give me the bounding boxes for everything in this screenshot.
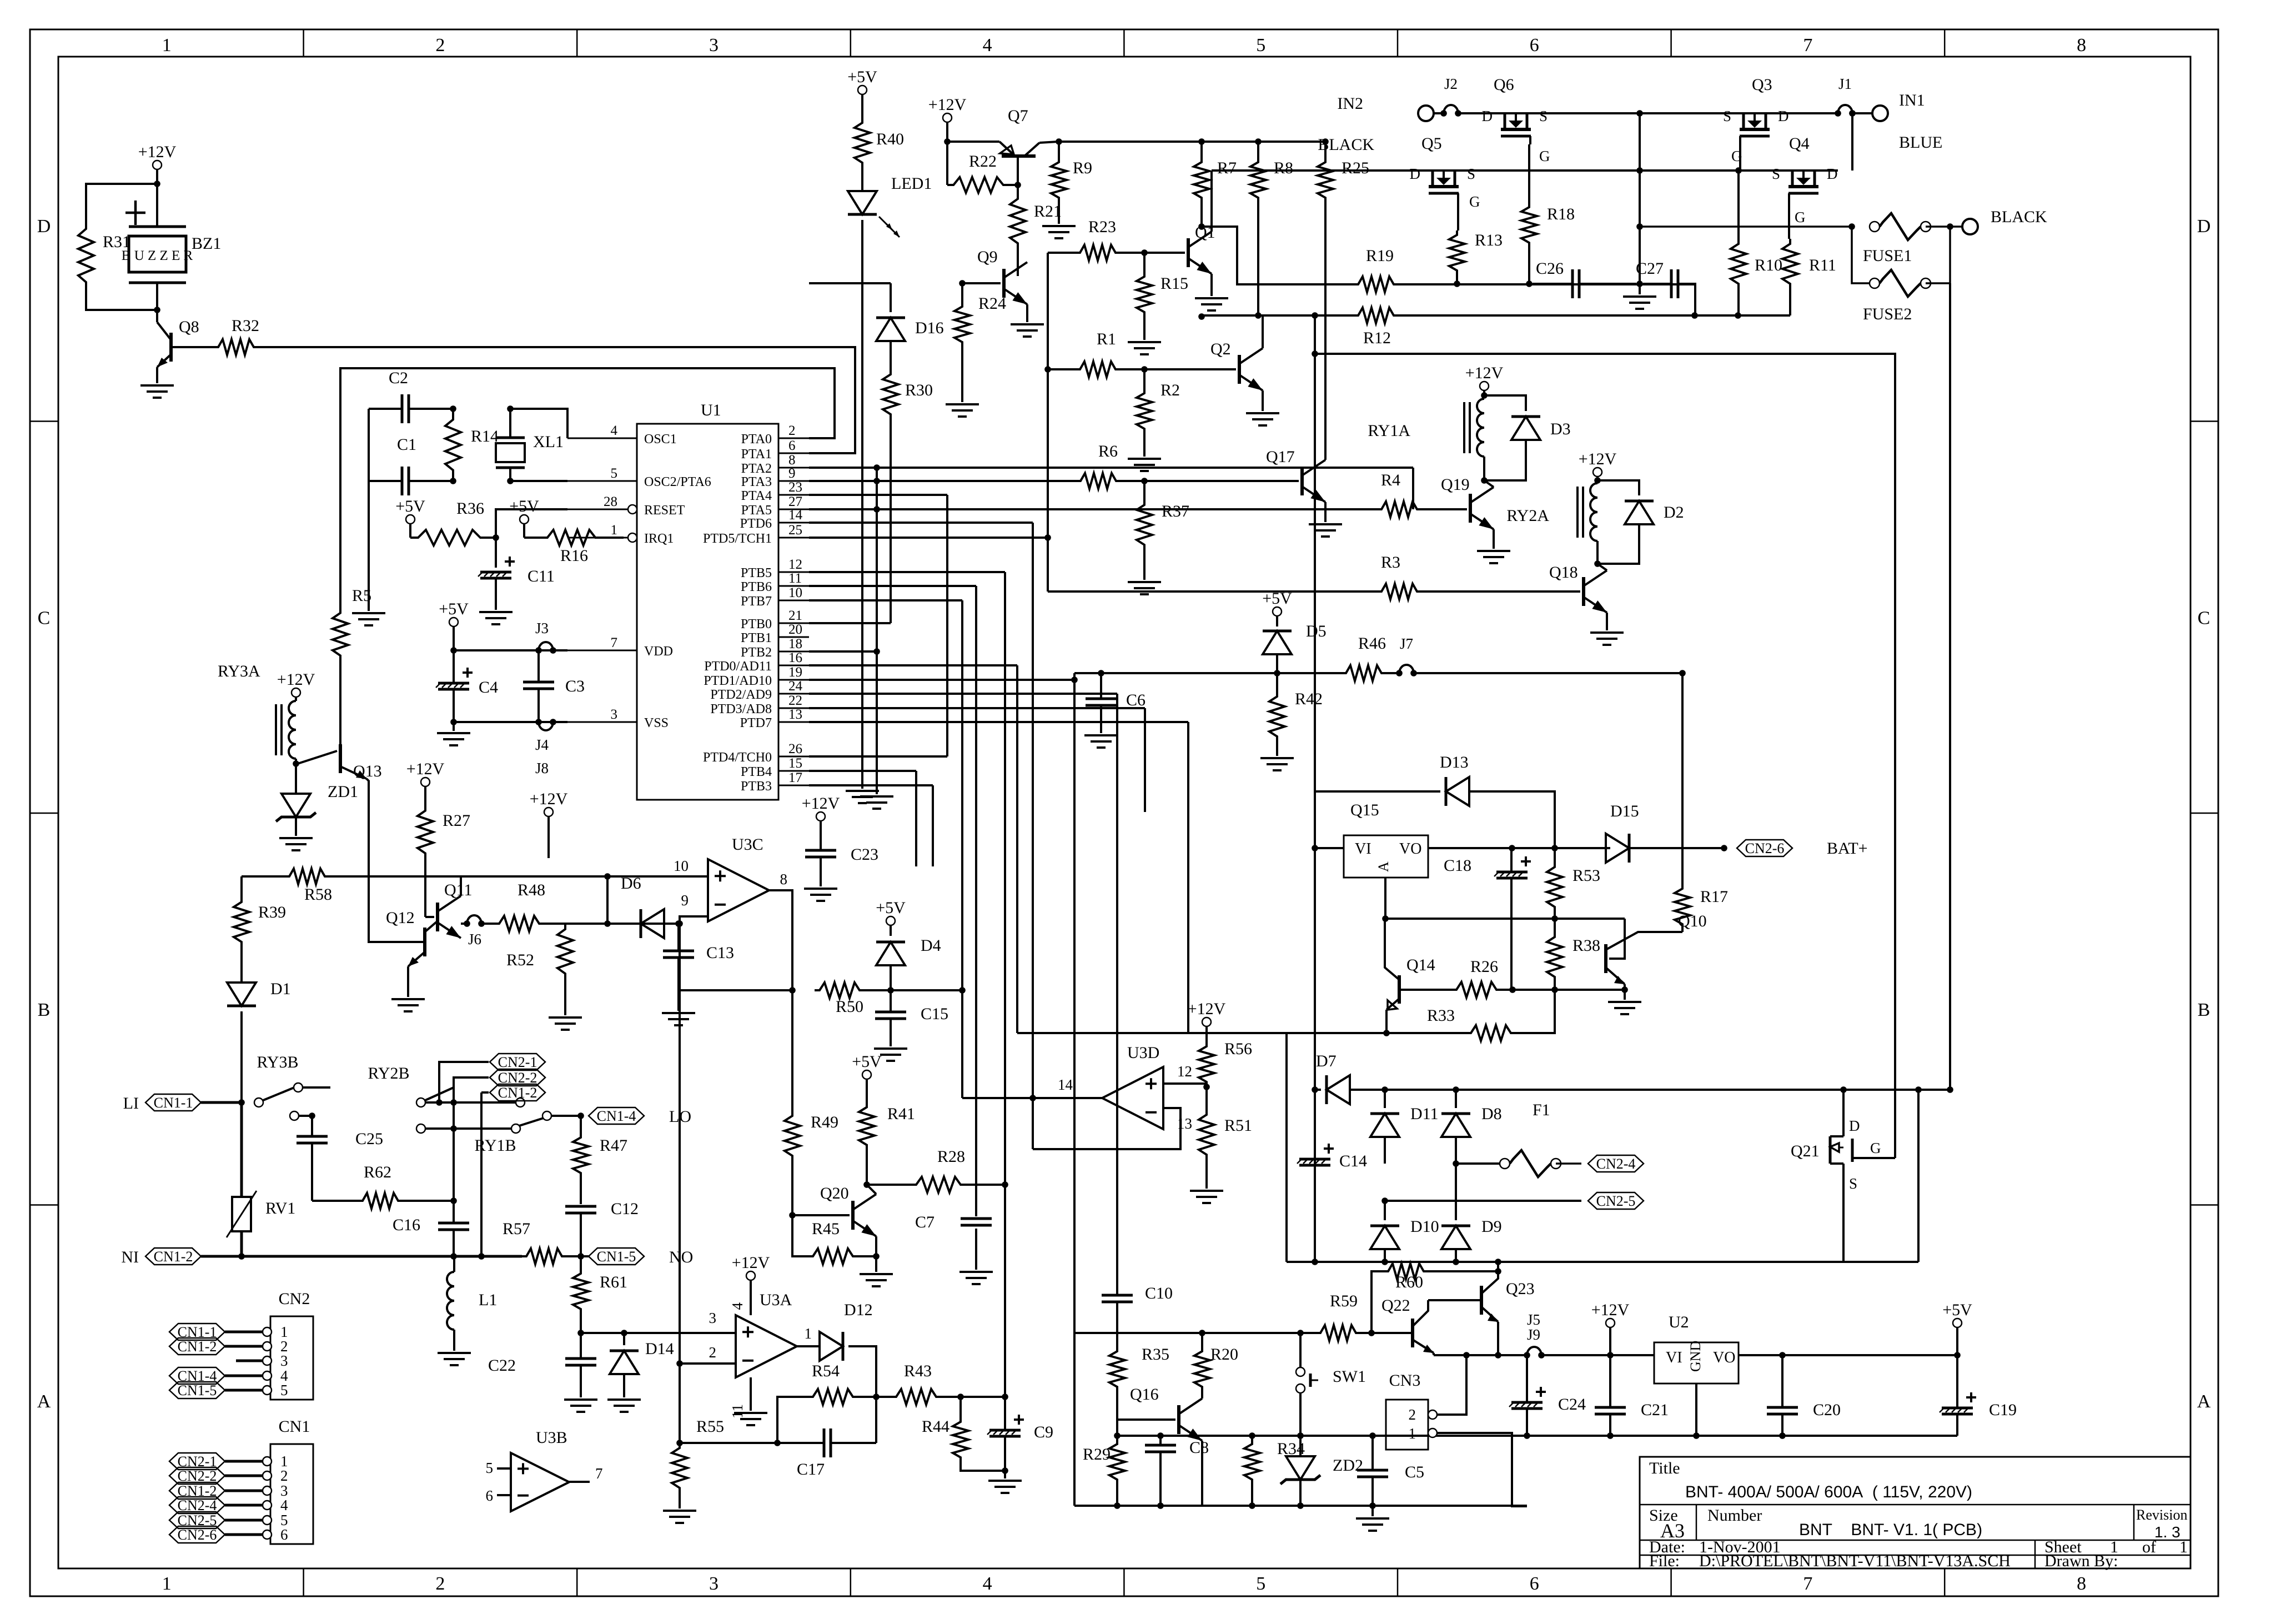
wire RESET [496, 509, 567, 538]
ground [1624, 990, 1626, 1000]
flag CN1-5 NO [589, 1248, 644, 1265]
svg-text:R56: R56 [1224, 1040, 1252, 1058]
svg-text:IN2: IN2 [1337, 94, 1363, 113]
resistor R56 [1199, 1042, 1214, 1086]
svg-text:U2: U2 [1669, 1313, 1689, 1331]
wire pin21 [809, 622, 891, 624]
svg-text:LI: LI [123, 1094, 139, 1112]
svg-text:Q10: Q10 [1678, 912, 1707, 930]
svg-text:PTB5: PTB5 [741, 566, 772, 580]
svg-text:U3A: U3A [760, 1291, 792, 1309]
ground [959, 1271, 993, 1273]
wire CN3 pin1 [1437, 1433, 1527, 1506]
svg-text:Q15: Q15 [1350, 801, 1379, 819]
wire U3C + line [329, 875, 708, 878]
jumper J2 [1434, 112, 1444, 114]
capacitor C12 [565, 1205, 596, 1208]
svg-text:C2: C2 [389, 369, 408, 387]
fuse FUSE1 [1870, 222, 1880, 232]
bus vertical pin10 PTB7 to U3D [809, 599, 962, 602]
wire pin15 [809, 770, 916, 772]
svg-text:R26: R26 [1470, 958, 1498, 976]
svg-text:11: 11 [729, 1404, 746, 1419]
svg-text:C27: C27 [1636, 259, 1664, 278]
svg-text:R1: R1 [1097, 330, 1116, 348]
svg-text:G: G [1469, 193, 1480, 210]
title block [1640, 1457, 2191, 1568]
varistor RV1 [240, 1102, 243, 1197]
wire CN3 pin2 [1437, 1355, 1466, 1415]
svg-text:C22: C22 [488, 1356, 516, 1375]
svg-text:D: D [1778, 108, 1789, 124]
svg-text:7: 7 [1803, 35, 1812, 56]
svg-text:G: G [1870, 1140, 1881, 1156]
svg-text:8: 8 [2077, 1573, 2086, 1594]
wire emitter [1201, 1441, 1203, 1506]
wire [86, 184, 157, 222]
fuse wire [1640, 225, 1852, 228]
wire output 8 [769, 890, 792, 990]
svg-text:R41: R41 [887, 1105, 915, 1123]
svg-text:B U Z Z E R: B U Z Z E R [122, 248, 193, 263]
svg-text:1. 3: 1. 3 [2154, 1523, 2181, 1541]
wire [86, 289, 157, 310]
svg-text:27: 27 [788, 494, 802, 509]
svg-text:C26: C26 [1536, 259, 1564, 278]
bus vertical pin22 [809, 707, 1145, 709]
wire RY2B down [453, 1102, 455, 1201]
svg-text:D9: D9 [1481, 1217, 1502, 1236]
svg-text:D12: D12 [844, 1301, 873, 1319]
svg-text:R52: R52 [506, 951, 534, 969]
resistor R41 [859, 1102, 875, 1150]
svg-text:OSC2/PTA6: OSC2/PTA6 [644, 475, 711, 489]
svg-text:C17: C17 [797, 1460, 825, 1478]
resistor R2 [1137, 389, 1152, 433]
svg-text:D3: D3 [1550, 420, 1571, 438]
svg-text:Q9: Q9 [977, 248, 998, 266]
svg-text:+5V: +5V [439, 600, 469, 618]
fuse FUSE2 [1852, 227, 1870, 283]
svg-text:R2: R2 [1160, 381, 1180, 399]
wire [368, 409, 370, 481]
ground [391, 998, 425, 1000]
flag CN2-2 [490, 1069, 545, 1086]
ground [1128, 341, 1161, 343]
svg-text:R49: R49 [811, 1113, 838, 1131]
resistor R38 [1547, 932, 1563, 982]
wire R12 row [1202, 314, 1354, 317]
jumper J7 [1396, 670, 1403, 676]
capacitor C8 [1145, 1444, 1176, 1447]
svg-text:PTA3: PTA3 [741, 475, 772, 489]
capacitor C15 [875, 1011, 906, 1014]
ground [140, 384, 174, 387]
svg-text:CN1: CN1 [279, 1417, 310, 1436]
right verticals [1917, 1090, 1920, 1262]
svg-text:S: S [1539, 108, 1548, 124]
resistor R35 [1109, 1347, 1125, 1391]
svg-text:+12V: +12V [1465, 364, 1504, 382]
wire collector [1201, 1391, 1203, 1399]
flag CN1-4 LO [589, 1107, 644, 1124]
wire [1926, 225, 1950, 228]
svg-text:LED1: LED1 [891, 174, 932, 193]
ground [1477, 550, 1510, 552]
resistor R13 [1449, 230, 1465, 275]
svg-text:File:: File: [1649, 1552, 1680, 1570]
diode D14 [581, 1332, 624, 1334]
svg-text:CN2-6: CN2-6 [1745, 840, 1785, 856]
svg-text:4: 4 [729, 1302, 746, 1310]
wire VI [1315, 847, 1344, 849]
svg-text:PTB3: PTB3 [741, 779, 772, 794]
svg-text:+12V: +12V [138, 143, 177, 161]
bottom rail left [1074, 1505, 1527, 1507]
svg-text:R28: R28 [937, 1147, 965, 1166]
svg-text:LO: LO [669, 1107, 691, 1126]
svg-text:PTD6: PTD6 [740, 517, 772, 531]
bus vertical pin11 PTB6 to C7 [809, 585, 976, 587]
svg-text:25: 25 [788, 523, 802, 538]
op-amp U3B [511, 1453, 569, 1511]
wire pin27 row R4 [809, 508, 1377, 510]
wire pin8 row [809, 467, 1413, 469]
op-amp U3C [708, 859, 769, 921]
svg-text:S: S [1723, 108, 1731, 124]
svg-text:PTB7: PTB7 [741, 594, 772, 609]
svg-text:23: 23 [788, 480, 802, 495]
svg-text:+12V: +12V [802, 794, 840, 813]
svg-text:R37: R37 [1162, 502, 1189, 520]
svg-text:U1: U1 [701, 401, 721, 419]
svg-text:VI: VI [1666, 1349, 1682, 1366]
svg-text:RY3A: RY3A [218, 662, 260, 680]
ground [1309, 523, 1342, 525]
svg-text:R50: R50 [836, 998, 863, 1016]
left loop vertical [1285, 1033, 1288, 1262]
svg-text:CN1-1: CN1-1 [154, 1095, 193, 1111]
wire to Q21 gate via top [1315, 354, 1895, 1158]
svg-text:PTB1: PTB1 [741, 631, 772, 645]
svg-text:C15: C15 [921, 1005, 948, 1023]
svg-text:PTA1: PTA1 [741, 447, 772, 462]
ground [549, 1016, 582, 1019]
diode D12 [797, 1345, 820, 1347]
jumper J4 [535, 719, 542, 725]
svg-text:J6: J6 [468, 931, 481, 948]
svg-text:1: 1 [611, 523, 618, 538]
wire J7 row [1074, 672, 1342, 674]
svg-text:8: 8 [788, 453, 796, 468]
wire Q2 collector [1262, 315, 1264, 348]
connector CN2 pin 4 [263, 1371, 272, 1380]
capacitor C14 [1299, 1158, 1330, 1161]
svg-text:J7: J7 [1400, 635, 1413, 652]
jumper J3 [535, 647, 542, 654]
wire Q11 collector [460, 876, 462, 896]
svg-text:PTA0: PTA0 [741, 432, 772, 447]
wire [1202, 227, 1354, 284]
svg-text:Q16: Q16 [1130, 1385, 1159, 1404]
svg-text:R8: R8 [1274, 159, 1293, 177]
svg-text:R40: R40 [876, 130, 904, 148]
inductor L1 [447, 1272, 454, 1330]
svg-text:D: D [1827, 166, 1838, 182]
ground [734, 1412, 767, 1414]
svg-text:CN2-4: CN2-4 [178, 1497, 217, 1513]
svg-text:3: 3 [709, 35, 719, 56]
svg-text:16: 16 [788, 650, 802, 665]
svg-text:R55: R55 [696, 1417, 724, 1436]
svg-text:R23: R23 [1088, 218, 1116, 236]
resistor R24 [961, 283, 963, 302]
svg-text:Q3: Q3 [1752, 76, 1772, 94]
flag CN2-1 [490, 1054, 545, 1070]
svg-text:PTD7: PTD7 [740, 716, 772, 730]
svg-text:8: 8 [2077, 35, 2086, 56]
resistor R30 [883, 369, 898, 419]
svg-text:D: D [1482, 108, 1493, 124]
resistor R18 [1521, 203, 1537, 247]
wire CN2-1 [439, 1062, 489, 1102]
svg-text:D15: D15 [1610, 802, 1639, 820]
svg-text:6: 6 [1530, 35, 1539, 56]
svg-text:GND: GND [1687, 1341, 1704, 1372]
svg-text:R21: R21 [1034, 202, 1062, 220]
svg-text:+12V: +12V [406, 760, 445, 778]
resistor R55 [672, 1443, 687, 1493]
wire pin14 [962, 1097, 1102, 1099]
ground [663, 1510, 696, 1512]
svg-text:Q23: Q23 [1506, 1280, 1535, 1298]
wire Q13 emitter to Q12 base [366, 779, 425, 942]
svg-text:F1: F1 [1533, 1101, 1550, 1119]
svg-text:C9: C9 [1034, 1423, 1053, 1441]
svg-text:L1: L1 [479, 1291, 497, 1309]
capacitor C16 [438, 1222, 469, 1225]
svg-text:2: 2 [788, 423, 796, 438]
svg-text:R3: R3 [1381, 553, 1400, 572]
svg-text:J1: J1 [1838, 76, 1852, 92]
svg-text:B: B [38, 1000, 51, 1020]
wire R32 to PTA1 [258, 347, 855, 453]
svg-text:Q21: Q21 [1791, 1142, 1820, 1160]
svg-text:C11: C11 [527, 567, 555, 585]
wire [296, 763, 317, 764]
resistor R27 [418, 805, 433, 859]
relay coil RY3A [289, 701, 296, 759]
svg-text:+5V: +5V [847, 68, 877, 86]
capacitor C4 [453, 650, 455, 682]
svg-text:D16: D16 [915, 319, 944, 337]
svg-text:8: 8 [780, 871, 788, 888]
svg-text:U3B: U3B [536, 1428, 567, 1447]
svg-text:RY3B: RY3B [257, 1053, 298, 1071]
svg-text:9: 9 [681, 892, 689, 909]
svg-text:C12: C12 [611, 1200, 639, 1218]
capacitor C11 [495, 538, 497, 568]
svg-text:1: 1 [1409, 1425, 1416, 1442]
wire collector [1493, 480, 1494, 487]
ground [804, 888, 837, 890]
ground [1128, 458, 1161, 460]
svg-text:of: of [2142, 1538, 2156, 1556]
svg-text:D: D [2197, 216, 2211, 237]
svg-text:CN1-2: CN1-2 [178, 1339, 217, 1355]
diode D13 [1446, 777, 1469, 806]
wire Q1 collector [1210, 171, 1213, 232]
diode D6 [641, 909, 664, 938]
svg-text:VO: VO [1713, 1349, 1735, 1366]
svg-text:+12V: +12V [1591, 1301, 1630, 1319]
resistor R61 [573, 1269, 589, 1314]
svg-text:R29: R29 [1083, 1445, 1111, 1463]
svg-text:+5V: +5V [509, 497, 539, 515]
svg-text:PTD3/AD8: PTD3/AD8 [710, 702, 772, 716]
svg-text:C13: C13 [706, 944, 734, 962]
svg-text:R61: R61 [600, 1273, 627, 1291]
connector CN2 pin 1 [263, 1327, 272, 1336]
wire Q9 emitter [1026, 304, 1028, 322]
svg-text:Q14: Q14 [1406, 956, 1435, 974]
wire Q4 drain up [1817, 170, 1852, 171]
ground [860, 1273, 893, 1275]
svg-text:Drawn By:: Drawn By: [2044, 1552, 2118, 1570]
svg-text:4: 4 [983, 35, 992, 56]
wire y2400 row [1074, 1332, 1300, 1334]
svg-text:ZD1: ZD1 [328, 783, 358, 801]
wire emitter row [1434, 1354, 1527, 1356]
resistor R12 [1354, 308, 1398, 323]
wire VO / BAT+ [1428, 847, 1610, 849]
svg-text:18: 18 [788, 636, 802, 651]
ground [1623, 295, 1656, 298]
ground [1195, 297, 1228, 299]
LED LED1 [848, 191, 877, 214]
wire pin13 feedback [1033, 1108, 1180, 1149]
svg-text:PTD5/TCH1: PTD5/TCH1 [703, 532, 772, 546]
svg-text:15: 15 [788, 756, 802, 771]
ground [662, 1012, 695, 1014]
resistor R25 [1324, 142, 1327, 158]
svg-text:CN1-4: CN1-4 [597, 1108, 636, 1124]
svg-text:CN2-6: CN2-6 [178, 1527, 217, 1543]
svg-text:10: 10 [674, 858, 689, 874]
resistor R50 [815, 983, 865, 998]
svg-text:RESET: RESET [644, 503, 685, 518]
svg-text:C3: C3 [565, 677, 585, 695]
capacitor C26 [1571, 269, 1574, 298]
relay coil RY1A [1477, 399, 1484, 457]
svg-text:+5V: +5V [852, 1052, 882, 1071]
svg-text:R30: R30 [905, 381, 933, 399]
svg-text:12: 12 [788, 557, 802, 572]
svg-text:D: D [1849, 1117, 1860, 1134]
ground [1128, 581, 1161, 583]
svg-text:20: 20 [788, 622, 802, 637]
zener ZD1 [295, 764, 297, 794]
connector CN1 pin 5 [263, 1516, 272, 1525]
svg-text:R51: R51 [1224, 1116, 1252, 1135]
capacitor C5 [1357, 1469, 1388, 1472]
resistor R39 [240, 876, 243, 897]
svg-text:3: 3 [709, 1310, 717, 1326]
svg-text:1: 1 [2179, 1538, 2188, 1556]
svg-text:2: 2 [435, 35, 445, 56]
wire pin9 row R6 [809, 480, 1076, 482]
svg-text:9: 9 [788, 466, 796, 481]
bus vertical pin24 to C10 [809, 693, 1117, 695]
svg-text:R10: R10 [1755, 256, 1782, 274]
svg-text:1: 1 [805, 1325, 812, 1342]
resistor R53 [1547, 862, 1563, 912]
svg-text:B: B [2198, 1000, 2210, 1020]
wire top rail [1458, 112, 1838, 114]
svg-text:C5: C5 [1405, 1463, 1424, 1481]
svg-text:14: 14 [1058, 1076, 1073, 1093]
svg-text:4: 4 [611, 423, 618, 438]
svg-text:3: 3 [611, 707, 618, 722]
wire A pin [1384, 878, 1386, 919]
svg-text:13: 13 [788, 707, 802, 722]
bus vertical pin19 [809, 679, 1074, 681]
svg-text:R16: R16 [560, 547, 588, 565]
svg-text:U3D: U3D [1127, 1044, 1159, 1062]
wire Q1 emitter gnd [1210, 274, 1213, 296]
wire Q9 base to D16 [891, 283, 962, 284]
svg-text:14: 14 [788, 508, 803, 523]
wire main +rail x2368 [1314, 315, 1316, 791]
diode D1 [227, 983, 256, 1006]
wire Q6 gate down [1528, 144, 1530, 203]
svg-text:Title: Title [1649, 1459, 1680, 1477]
resistor R58 [242, 875, 285, 878]
wire CN1-2 drop [481, 1091, 489, 1094]
svg-text:PTD0/AD11: PTD0/AD11 [704, 659, 772, 674]
svg-text:R7: R7 [1217, 159, 1237, 177]
svg-text:FUSE1: FUSE1 [1863, 247, 1912, 265]
ground [479, 611, 513, 613]
svg-text:R45: R45 [812, 1220, 840, 1238]
svg-text:BLACK: BLACK [1318, 136, 1374, 154]
wire to OSC1 [510, 409, 567, 438]
resistor R9 [1058, 142, 1060, 158]
svg-text:R62: R62 [364, 1163, 391, 1181]
svg-text:J2: J2 [1444, 76, 1458, 92]
wire emitter [1493, 529, 1495, 549]
wire Q5 gate [1457, 202, 1459, 230]
svg-text:CN2-2: CN2-2 [498, 1070, 537, 1086]
wire [606, 876, 609, 924]
bus vertical pin12 PTB5 to C9 [809, 571, 1005, 573]
svg-text:+12V: +12V [530, 790, 568, 808]
svg-text:R27: R27 [443, 811, 470, 830]
diode D3 [1484, 395, 1526, 411]
svg-text:NO: NO [669, 1248, 693, 1266]
diode D9 [1455, 1164, 1457, 1220]
resistor R28 [911, 1177, 966, 1192]
wire D7 rail [1312, 1086, 1318, 1093]
svg-text:R9: R9 [1073, 159, 1092, 177]
svg-text:+5V: +5V [876, 899, 906, 917]
svg-text:D7: D7 [1316, 1052, 1337, 1070]
svg-text:C25: C25 [355, 1130, 383, 1148]
svg-text:Q17: Q17 [1266, 448, 1295, 466]
svg-text:C: C [2198, 608, 2210, 628]
terminal BLACK [1950, 225, 1962, 228]
svg-text:RY1B: RY1B [474, 1136, 516, 1155]
